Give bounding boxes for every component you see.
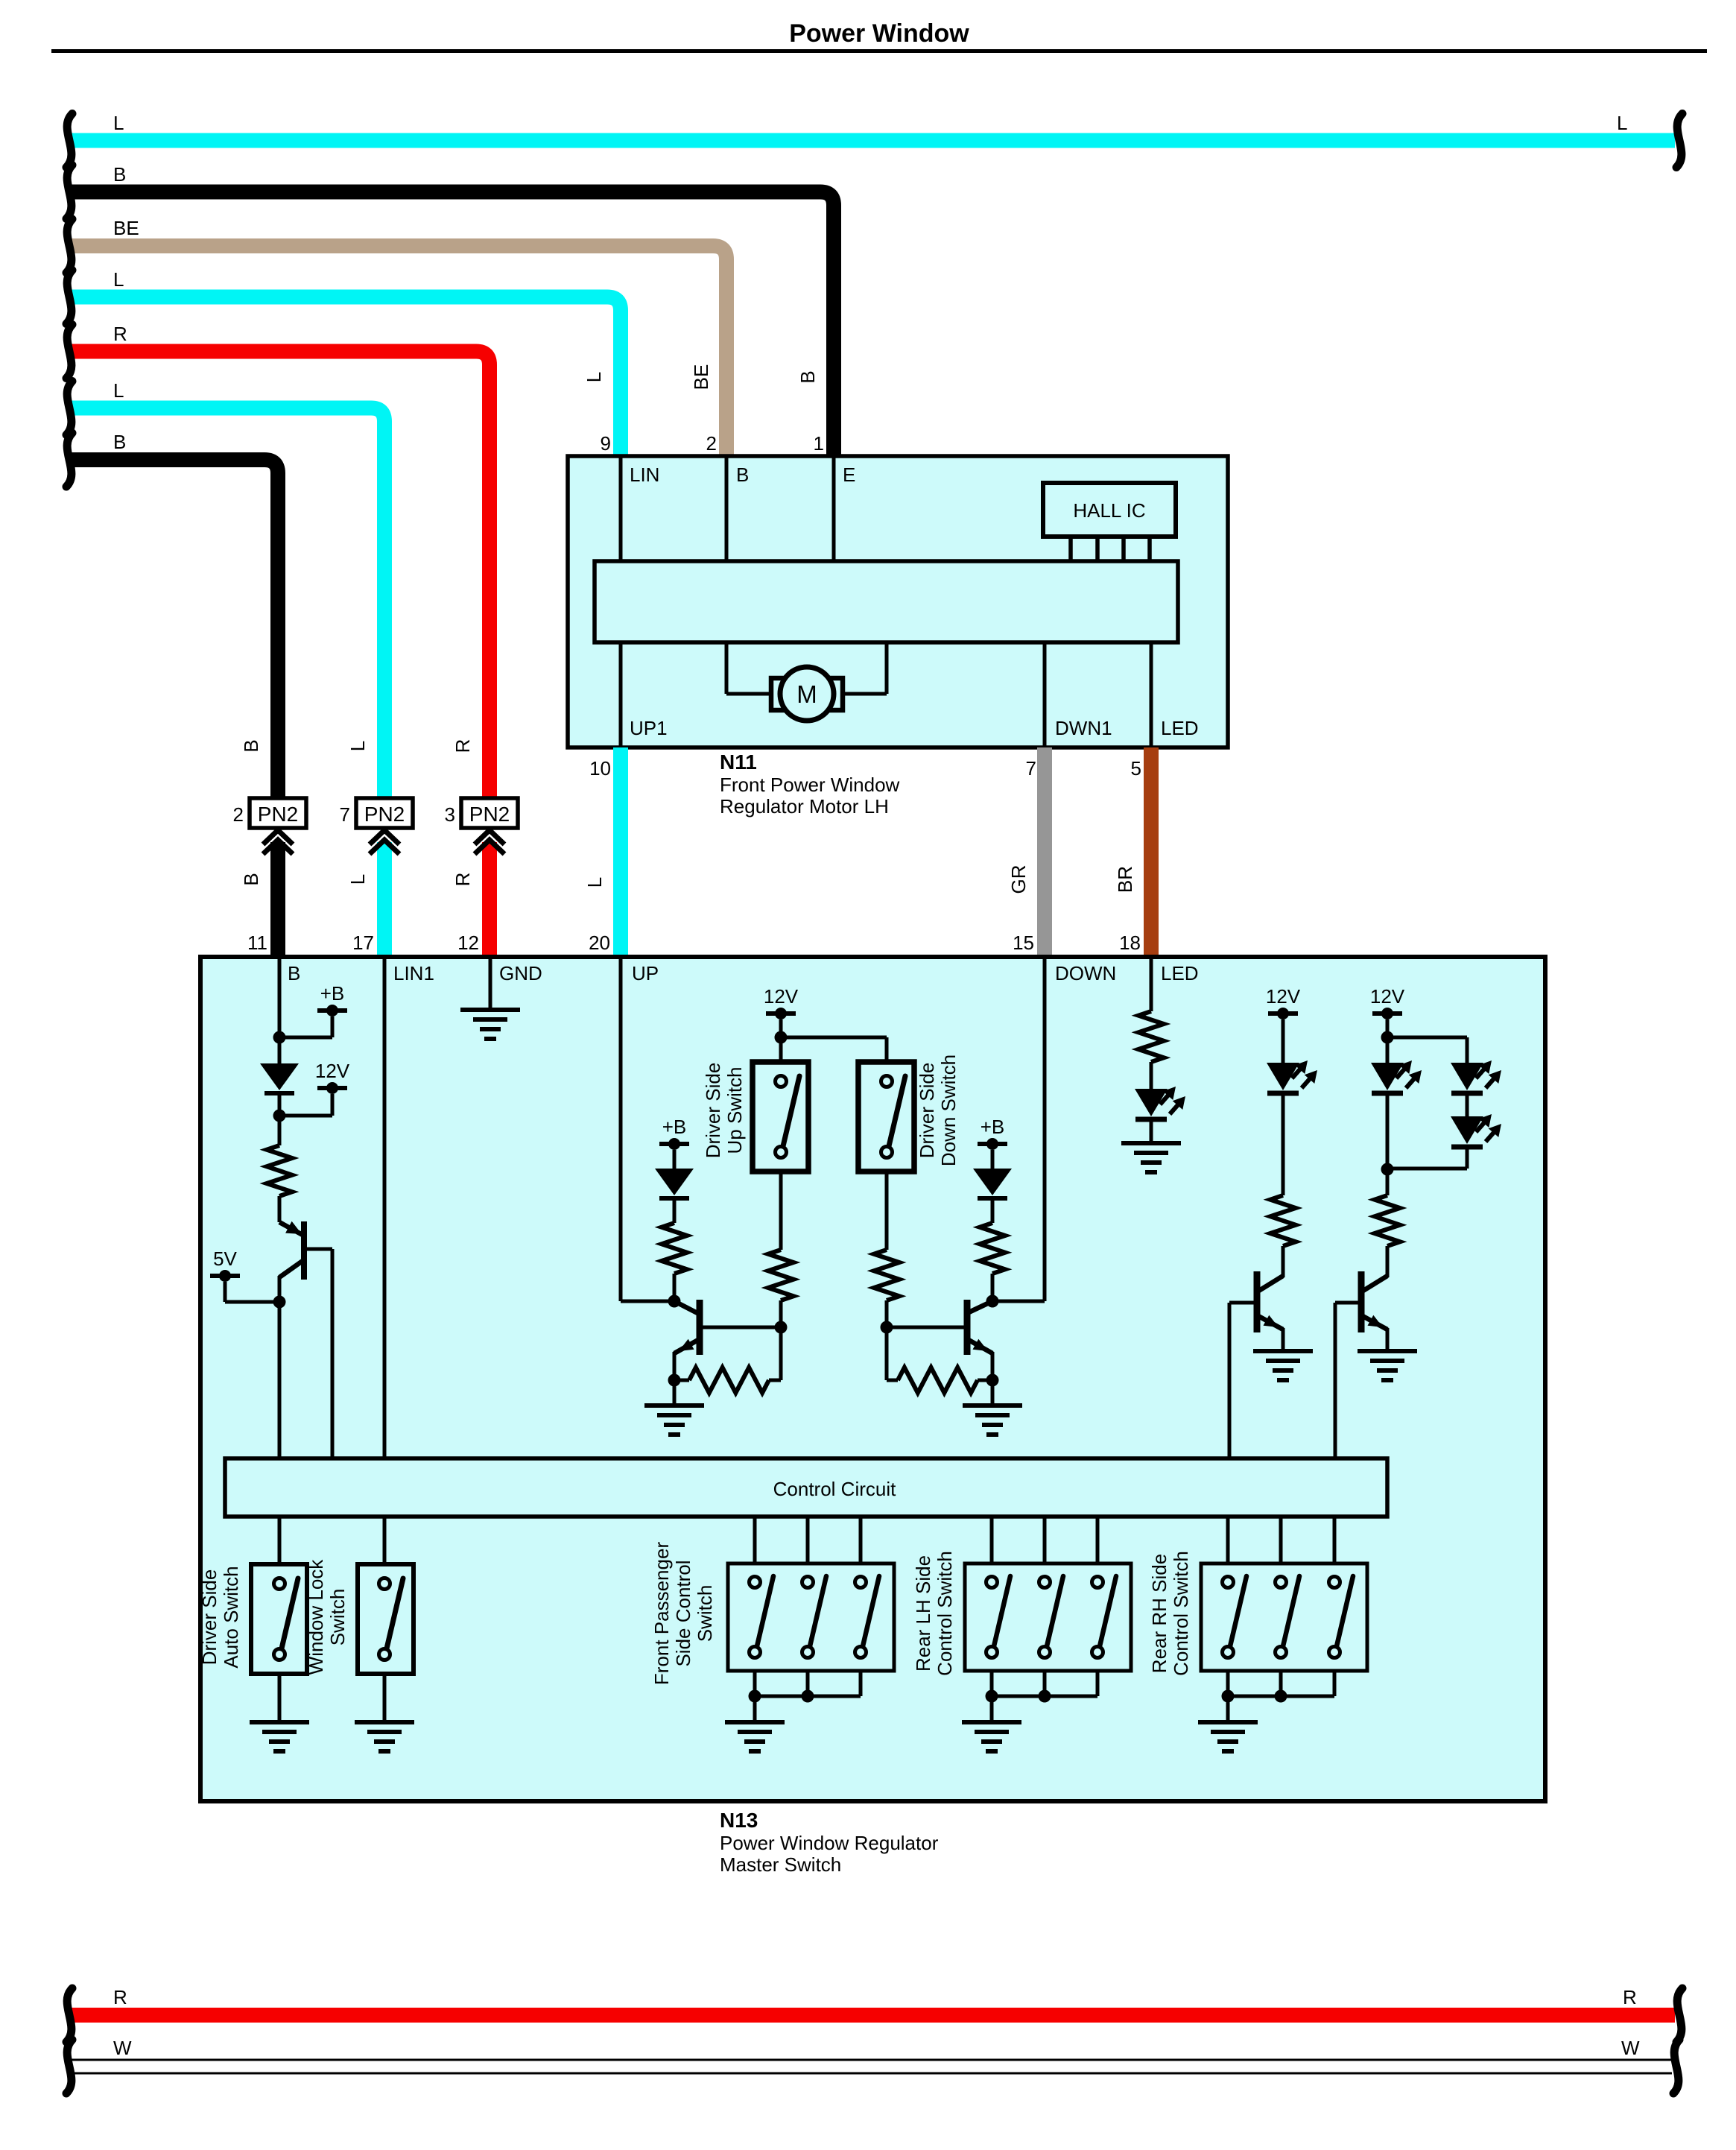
wire motor right lead: [843, 692, 887, 696]
svg-text:B: B: [240, 873, 262, 885]
svg-text:B: B: [113, 431, 126, 453]
wire 12V to up switch: [779, 1037, 783, 1062]
wire led string right: [1387, 1036, 1467, 1040]
transistor Q3: [966, 1301, 992, 1314]
led LED2: [1267, 1063, 1299, 1090]
svg-text:5: 5: [1131, 757, 1141, 780]
wire B below connector PN2-2: [270, 842, 285, 957]
svg-text:Switch: Switch: [694, 1585, 716, 1642]
svg-text:B: B: [736, 464, 749, 486]
svg-text:E: E: [843, 464, 855, 486]
tap 12V driver: [317, 1086, 347, 1090]
wire LED1 to ground: [1150, 1119, 1153, 1143]
resistor R7 base-emitter: [898, 1368, 978, 1393]
control circuit bar: [225, 1458, 1387, 1517]
wire LIN1 divider: [383, 957, 387, 1458]
svg-text:R: R: [1623, 1986, 1637, 2008]
switch Driver Side Up Switch: [753, 1062, 808, 1172]
node collector Q3: [986, 1295, 999, 1308]
svg-text:LED: LED: [1161, 717, 1199, 739]
svg-text:+B: +B: [662, 1116, 687, 1138]
connector PN2-7 chevrons: [370, 830, 399, 844]
svg-text:M: M: [796, 680, 817, 708]
ground Q4: [1253, 1349, 1313, 1353]
node collector Q2: [668, 1295, 681, 1308]
switch Rear RH Side Control Switch: [1226, 1517, 1230, 1564]
resistor R9: [1270, 1195, 1296, 1246]
resistor R5: [980, 1223, 1005, 1274]
wire Q3 emitter to ground: [991, 1380, 995, 1406]
svg-text:BE: BE: [690, 364, 712, 391]
svg-text:Side Control: Side Control: [672, 1560, 694, 1666]
svg-text:Rear LH Side: Rear LH Side: [912, 1555, 934, 1672]
svg-text:5V: 5V: [213, 1248, 237, 1270]
svg-text:GR: GR: [1007, 865, 1030, 894]
wire window lock to ground: [383, 1674, 387, 1722]
wire W bottom right break: [1673, 2040, 1679, 2093]
svg-text:B: B: [288, 962, 300, 984]
wire L (row 1, left-to-right full span): [71, 133, 1675, 148]
resistor R8: [1138, 1011, 1164, 1062]
wire BE row3 break: [66, 219, 72, 273]
svg-text:DOWN: DOWN: [1055, 962, 1116, 984]
resistor R6: [874, 1250, 899, 1300]
svg-text:W: W: [1621, 2037, 1640, 2059]
wire L row6 break: [66, 382, 72, 435]
diode D1: [260, 1063, 299, 1090]
svg-text:17: 17: [352, 932, 374, 954]
transistor Q2: [674, 1301, 699, 1314]
resistor R1: [267, 1145, 292, 1196]
svg-text:L: L: [113, 112, 124, 134]
ground Q5: [1358, 1349, 1417, 1353]
wire BE (row 3 to N11 pin 2): [71, 246, 726, 456]
transistor Q1: [279, 1222, 302, 1235]
svg-text:R: R: [113, 323, 127, 345]
motor M brushes: [771, 678, 791, 710]
wire R3 to base Q2: [779, 1300, 783, 1327]
svg-text:1: 1: [814, 432, 824, 455]
svg-text:Auto Switch: Auto Switch: [220, 1566, 242, 1668]
wire R9 to Q4: [1282, 1246, 1285, 1277]
svg-text:DWN1: DWN1: [1055, 717, 1112, 739]
motor M: [780, 667, 834, 721]
svg-text:Control Circuit: Control Circuit: [773, 1478, 896, 1500]
switch Driver Side Down Switch: [858, 1062, 914, 1172]
node base Q3: [881, 1321, 893, 1334]
svg-text:Control Switch: Control Switch: [1170, 1551, 1192, 1676]
diode D2: [655, 1169, 694, 1195]
transistor Q5: [1362, 1276, 1387, 1291]
wire DWN1 internal: [1043, 642, 1047, 747]
svg-text:B: B: [796, 370, 819, 383]
hall pin 2: [1095, 537, 1100, 561]
wire BR LED (N11 pin5 to N13 pin18): [1144, 747, 1159, 957]
wire D2 to R2: [673, 1198, 677, 1223]
wire up switch to R3: [779, 1172, 783, 1250]
resistor R10: [1375, 1195, 1400, 1246]
wire R10 to Q5: [1386, 1246, 1390, 1277]
svg-text:Front Passenger: Front Passenger: [650, 1542, 673, 1686]
svg-text:UP1: UP1: [630, 717, 668, 739]
switch Rear LH Side Control Switch: [990, 1517, 994, 1564]
wire R row5 break: [66, 325, 72, 379]
connector PN2-2 box: [250, 798, 306, 828]
wire R bottom: [71, 2008, 1675, 2023]
svg-text:2: 2: [706, 432, 717, 455]
wire Q2 emitter to ground: [673, 1380, 677, 1406]
svg-text:L: L: [113, 379, 124, 402]
svg-text:PN2: PN2: [258, 803, 298, 826]
tap 12V led2: [1372, 1011, 1402, 1016]
hall pin 4: [1147, 537, 1152, 561]
svg-text:LIN: LIN: [630, 464, 659, 486]
node junction 12V/B: [273, 1110, 286, 1122]
svg-text:LIN1: LIN1: [393, 962, 434, 984]
svg-text:BE: BE: [113, 217, 139, 239]
N11 internal circuit bar: [595, 561, 1178, 642]
svg-text:N11: N11: [720, 750, 757, 774]
tap 12V switches: [766, 1011, 796, 1016]
master switch N13 box: [200, 957, 1545, 1801]
ground Q3: [963, 1403, 1022, 1408]
wire B (row 7 to connector PN2-2): [71, 460, 278, 798]
wire bar to auto switch: [278, 1517, 282, 1564]
svg-text:UP: UP: [632, 962, 659, 984]
wire down switch to R6: [885, 1172, 889, 1250]
svg-text:10: 10: [589, 757, 611, 780]
svg-text:12V: 12V: [764, 985, 799, 1008]
hall sensor HALL IC box: [1043, 483, 1176, 537]
node junction 12V switches: [775, 1031, 788, 1044]
led LED3: [1371, 1063, 1404, 1090]
wire LED3 to junction: [1386, 1093, 1390, 1169]
connector PN2-7 box: [356, 798, 413, 828]
svg-text:L: L: [346, 874, 369, 885]
hall pin 3: [1121, 537, 1126, 561]
wire LED4 to LED5: [1466, 1093, 1469, 1116]
svg-text:12V: 12V: [1370, 985, 1405, 1008]
wire LED internal: [1150, 642, 1153, 747]
tap 12V led1: [1268, 1011, 1298, 1016]
svg-text:L: L: [583, 372, 605, 382]
wire R2 to Q2: [673, 1274, 677, 1301]
wire LED column: [1150, 957, 1153, 1011]
node junction +B/B: [273, 1031, 286, 1044]
svg-text:12V: 12V: [315, 1060, 350, 1082]
svg-text:20: 20: [589, 932, 610, 954]
svg-text:Driver Side: Driver Side: [702, 1063, 724, 1159]
node base Q2: [775, 1321, 788, 1334]
wire auto switch to ground: [278, 1674, 282, 1722]
wire R (row 5 to connector PN2-3): [71, 352, 490, 799]
ground Q2: [644, 1403, 704, 1408]
ground window lock: [355, 1720, 414, 1724]
svg-text:+B: +B: [981, 1116, 1005, 1138]
svg-text:Down Switch: Down Switch: [937, 1055, 960, 1166]
svg-text:9: 9: [601, 432, 611, 455]
wire L (row 6 to connector PN2-7): [71, 408, 384, 799]
svg-text:Master Switch: Master Switch: [720, 1853, 841, 1876]
tap +B up: [659, 1142, 689, 1146]
svg-text:B: B: [240, 739, 262, 752]
svg-text:PN2: PN2: [469, 803, 510, 826]
svg-text:Up Switch: Up Switch: [723, 1066, 746, 1154]
node junction led strings bottom: [1381, 1163, 1394, 1176]
wire R bottom left break: [66, 1988, 72, 2042]
wire W bottom left break: [66, 2040, 72, 2093]
svg-text:12: 12: [457, 932, 479, 954]
resistor R4 base-emitter: [689, 1368, 769, 1393]
wire motor left lead: [725, 642, 729, 694]
wire 12V to down switch: [781, 1036, 887, 1040]
wire B row7 break: [66, 433, 72, 487]
svg-text:Regulator Motor LH: Regulator Motor LH: [720, 795, 889, 818]
diode D3: [973, 1169, 1012, 1195]
svg-text:3: 3: [445, 803, 455, 826]
switch Driver Side Auto Switch: [251, 1564, 307, 1674]
connector PN2-2 chevrons: [263, 830, 293, 844]
svg-text:PN2: PN2: [364, 803, 405, 826]
tap +B driver: [317, 1008, 347, 1013]
svg-text:HALL IC: HALL IC: [1073, 499, 1145, 522]
ground auto switch: [250, 1720, 309, 1724]
wire L row1 left break: [66, 114, 72, 168]
tap 5V: [210, 1274, 240, 1278]
wire UP1 internal: [619, 642, 623, 747]
svg-text:R: R: [113, 1986, 127, 2008]
svg-text:LED: LED: [1161, 962, 1199, 984]
svg-text:W: W: [113, 2037, 132, 2059]
wire below D1: [278, 1093, 282, 1145]
wire L below connector PN2-7: [377, 842, 392, 957]
wire R5 to Q3: [991, 1274, 995, 1301]
wire GND column: [489, 957, 492, 1010]
svg-text:7: 7: [340, 803, 350, 826]
wire R below connector PN2-3: [482, 842, 497, 957]
led LED1: [1135, 1089, 1168, 1116]
terminal line E: [832, 456, 836, 561]
wire R1 to Q1: [278, 1196, 282, 1222]
svg-text:R: R: [452, 739, 474, 753]
svg-text:12V: 12V: [1266, 985, 1301, 1008]
wire bar to window lock switch: [383, 1517, 387, 1564]
ground LED1: [1121, 1141, 1181, 1145]
svg-text:Front Power Window: Front Power Window: [720, 774, 900, 796]
wire junction to R10: [1386, 1169, 1390, 1195]
terminal line B: [725, 456, 729, 561]
ground GND terminal: [460, 1008, 520, 1012]
svg-text:L: L: [583, 877, 606, 888]
wire R bottom right break: [1676, 1988, 1682, 2042]
wire L (row 4 to N11 pin 9): [71, 297, 621, 457]
transistor Q4: [1258, 1276, 1283, 1291]
wire LED2 to R9: [1282, 1093, 1285, 1195]
svg-text:+B: +B: [320, 982, 345, 1005]
svg-text:11: 11: [247, 932, 267, 954]
svg-text:L: L: [1617, 112, 1627, 134]
svg-text:Control Switch: Control Switch: [934, 1551, 956, 1676]
svg-text:Driver Side: Driver Side: [916, 1063, 938, 1159]
switch Front Passenger Side Control Switch: [753, 1517, 757, 1564]
wire B row2 break: [66, 165, 72, 219]
node emitter Q2: [668, 1374, 681, 1387]
hall pin 1: [1068, 537, 1073, 561]
connector PN2-3 chevrons: [475, 830, 504, 844]
terminal line LIN: [619, 456, 623, 561]
svg-text:Switch: Switch: [326, 1589, 349, 1646]
wire W bottom: [71, 2059, 1672, 2061]
node emitter Q3: [986, 1374, 999, 1387]
svg-text:2: 2: [233, 803, 244, 826]
resistor R2: [662, 1223, 687, 1274]
led LED4: [1451, 1063, 1483, 1090]
svg-text:15: 15: [1013, 932, 1034, 954]
svg-text:B: B: [113, 163, 126, 186]
svg-text:L: L: [346, 741, 369, 751]
wire B (row 2 to N11 pin 1): [71, 192, 834, 457]
resistor R3: [768, 1250, 793, 1300]
wire R6 to base Q3: [885, 1300, 889, 1327]
wire L row4 break: [66, 271, 72, 324]
node junction 5V/Q1: [273, 1296, 286, 1309]
svg-text:BR: BR: [1114, 866, 1136, 893]
connector PN2-3 box: [461, 798, 518, 828]
svg-text:7: 7: [1026, 757, 1036, 780]
svg-text:Window Lock: Window Lock: [305, 1559, 327, 1675]
wire B column: [278, 957, 282, 1063]
motor unit N11 box: [568, 456, 1228, 747]
switch Window Lock Switch: [358, 1564, 414, 1674]
svg-text:Rear RH Side: Rear RH Side: [1148, 1554, 1170, 1673]
wire R8 to LED1: [1150, 1062, 1153, 1089]
svg-text:Power Window: Power Window: [789, 19, 969, 48]
wire L row1 right break: [1676, 114, 1682, 168]
wire GR DOWN (N11 pin7 to N13 pin15): [1037, 747, 1052, 957]
svg-text:Power Window Regulator: Power Window Regulator: [720, 1832, 939, 1854]
node junction led strings top: [1381, 1031, 1394, 1044]
wire UP divider: [619, 957, 623, 1301]
svg-text:R: R: [452, 873, 474, 887]
wire DOWN divider: [1043, 957, 1047, 1301]
wire L UP (N11 pin10 to N13 pin20): [613, 747, 628, 957]
svg-text:L: L: [113, 268, 124, 291]
svg-text:Driver Side: Driver Side: [198, 1569, 221, 1666]
wire led string left: [1386, 1037, 1390, 1063]
svg-text:18: 18: [1119, 932, 1141, 954]
led LED5: [1451, 1116, 1483, 1144]
wire D3 to R5: [991, 1198, 995, 1223]
wire LED5 to junction: [1466, 1146, 1469, 1169]
svg-text:N13: N13: [720, 1809, 758, 1832]
tap +B down: [978, 1142, 1007, 1146]
title underline: [51, 49, 1707, 53]
svg-text:GND: GND: [499, 962, 542, 984]
